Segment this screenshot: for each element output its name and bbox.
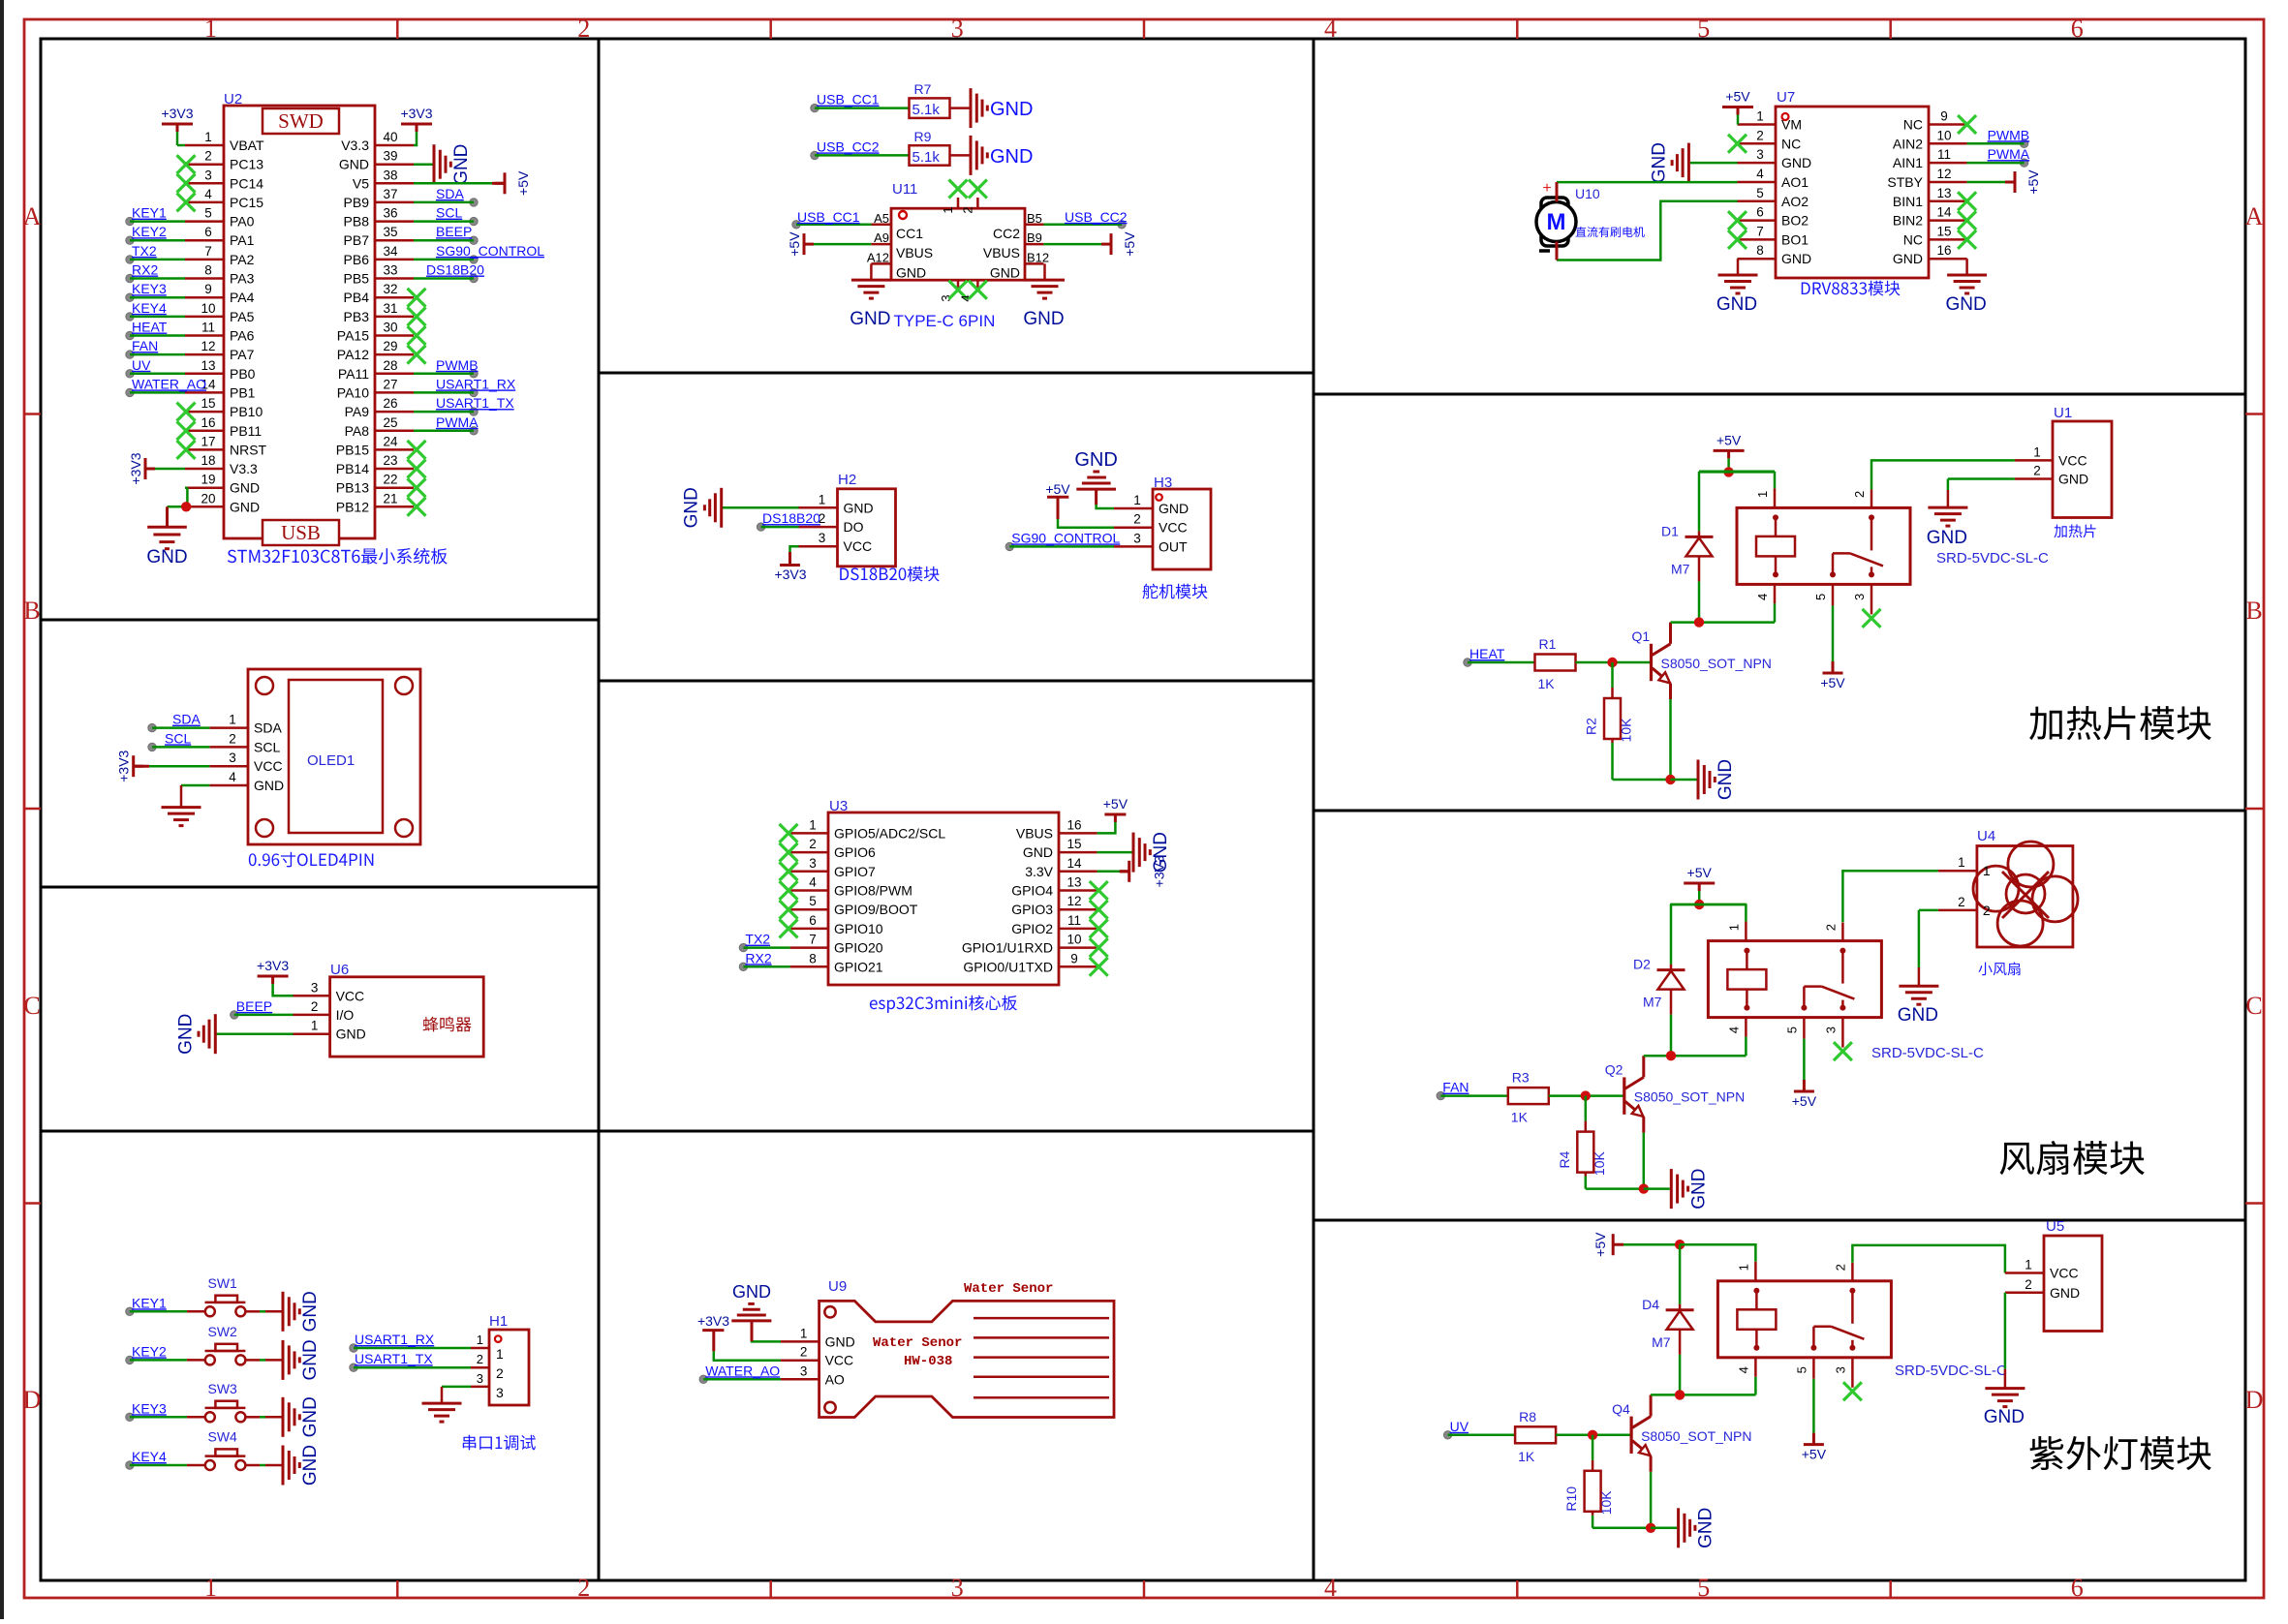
U7 pin 11 AIN1 [1929, 162, 1967, 165]
svg-text:KEY1: KEY1 [132, 205, 167, 221]
U2 pin4 no-connect X [177, 193, 196, 211]
U2 pin 39 GND [375, 163, 414, 166]
svg-text:+3V3: +3V3 [697, 1313, 729, 1329]
U7 pin12 +5V power [1967, 181, 2005, 184]
H2 +3V3 power [790, 546, 799, 552]
U2 net label KEY4 [126, 313, 134, 321]
U7 net label PWMB [2020, 139, 2027, 147]
U3 pin4 no-connect X [780, 881, 798, 900]
diode D2 M7 flyback [1670, 904, 1673, 965]
H1 pin 1 [471, 1347, 489, 1350]
svg-text:2: 2 [1852, 491, 1867, 498]
resistor R1 1K [1535, 655, 1576, 671]
OLED corner hole bottom-left [256, 819, 273, 837]
U2 net label FAN [126, 351, 134, 358]
emitter ground [1697, 760, 1700, 800]
+5V power (B9) [1043, 243, 1101, 246]
relay pin4 stub [1745, 1018, 1747, 1037]
relay pin2 stub [1871, 489, 1873, 507]
SW3 ground [282, 1397, 285, 1437]
svg-text:STBY: STBY [1887, 174, 1923, 190]
svg-text:A: A [2245, 202, 2264, 230]
svg-text:GND: GND [1927, 528, 1967, 548]
svg-text:GND: GND [1898, 1005, 1938, 1026]
+3V3 power (buzzer) [273, 992, 294, 996]
U2 pin 35 PB7 [375, 239, 414, 242]
svg-text:+3V3: +3V3 [161, 106, 193, 121]
U7 pin 2 NC [1738, 142, 1777, 145]
svg-text:R8: R8 [1519, 1409, 1536, 1425]
svg-text:18: 18 [201, 453, 215, 468]
OLED ground [181, 784, 209, 787]
svg-text:1: 1 [819, 492, 826, 506]
U4 GND wire [1919, 909, 1938, 912]
svg-text:PWMB: PWMB [1988, 127, 2030, 142]
U2 pin 17 NRST [185, 448, 224, 451]
U2 pin 3 PC14 [185, 182, 224, 185]
H2 pin 1 GND [799, 506, 838, 509]
svg-text:PA0: PA0 [230, 214, 255, 230]
svg-text:8: 8 [204, 263, 212, 278]
U3 pin6 no-connect X [780, 919, 798, 937]
svg-text:R1: R1 [1539, 636, 1557, 652]
svg-text:USB_CC1: USB_CC1 [797, 209, 860, 225]
svg-text:1: 1 [229, 713, 236, 727]
svg-text:R3: R3 [1512, 1070, 1530, 1086]
svg-text:2: 2 [809, 837, 817, 851]
U3 pin 7 GPIO20 [790, 946, 828, 949]
svg-text:2: 2 [1958, 895, 1965, 909]
svg-text:GND: GND [850, 309, 890, 329]
R4 wires [1585, 1096, 1588, 1121]
svg-text:KEY1: KEY1 [132, 1295, 167, 1310]
svg-text:15: 15 [201, 396, 215, 411]
svg-text:DO: DO [844, 519, 864, 535]
U3 pin13 no-connect X [1090, 881, 1108, 900]
svg-text:PC15: PC15 [230, 195, 263, 210]
+5V junction [1723, 467, 1733, 476]
R7 ground [970, 88, 973, 128]
svg-text:2: 2 [204, 149, 212, 164]
svg-text:4: 4 [204, 187, 212, 201]
U11 pin A5 CC1 [871, 224, 891, 227]
svg-text:4: 4 [809, 875, 817, 890]
svg-text:33: 33 [383, 263, 397, 278]
svg-text:D: D [2245, 1386, 2264, 1414]
svg-text:+3V3: +3V3 [116, 750, 132, 781]
svg-text:S8050_SOT_NPN: S8050_SOT_NPN [1641, 1428, 1751, 1444]
svg-text:GND: GND [1945, 294, 1986, 315]
svg-text:1: 1 [800, 1326, 808, 1340]
+5V rail wire (fan) [1670, 904, 1747, 906]
svg-text:CC1: CC1 [896, 226, 923, 241]
H2 pin1 ground wire [723, 506, 799, 509]
svg-text:1: 1 [1133, 493, 1141, 507]
svg-text:SCL: SCL [165, 730, 191, 746]
svg-text:VBUS: VBUS [1016, 825, 1053, 841]
svg-text:VCC: VCC [844, 538, 873, 554]
svg-text:24: 24 [383, 434, 398, 448]
+5V rail wire [1699, 471, 1775, 474]
svg-text:VCC: VCC [2058, 452, 2087, 468]
svg-text:GND: GND [1893, 251, 1923, 266]
U2 SWD banner [263, 108, 339, 134]
U2 pin23 no-connect X [408, 460, 426, 478]
U2 net label KEY2 [126, 236, 134, 244]
svg-text:2: 2 [2025, 1277, 2032, 1292]
svg-text:GND: GND [339, 157, 369, 172]
U7 pin9 no-connect X [1958, 115, 1976, 134]
svg-text:R4: R4 [1557, 1150, 1572, 1168]
svg-text:1: 1 [311, 1019, 319, 1033]
svg-text:7: 7 [204, 244, 212, 259]
U2 pin 13 PB0 [185, 373, 224, 376]
svg-text:GND: GND [300, 1445, 321, 1486]
svg-text:15: 15 [1067, 837, 1081, 851]
relay pin1 stub [1774, 472, 1777, 489]
U2 net label USART1_TX [470, 408, 478, 415]
svg-text:5: 5 [1697, 1574, 1710, 1602]
relay pin2 stub [1851, 1263, 1854, 1281]
svg-text:PB5: PB5 [344, 271, 370, 287]
H2 pin 2 DO [799, 526, 838, 529]
svg-text:U1: U1 [2054, 405, 2072, 421]
svg-text:23: 23 [383, 453, 397, 468]
svg-text:B9: B9 [1027, 230, 1042, 245]
U7 pin 7 BO1 [1738, 238, 1777, 241]
svg-text:M7: M7 [1652, 1334, 1671, 1350]
svg-text:10: 10 [201, 301, 215, 316]
U2 pin18 +3V3 power (left) [155, 468, 185, 471]
U11 pin2 (top) [976, 198, 979, 208]
U2 net label SCL [470, 217, 478, 225]
svg-text:R9: R9 [914, 129, 932, 144]
svg-text:PB3: PB3 [344, 309, 370, 324]
svg-text:3: 3 [951, 15, 964, 43]
svg-text:Q4: Q4 [1612, 1401, 1630, 1417]
Q1 emitter wire [1669, 684, 1672, 699]
svg-text:GND: GND [230, 480, 260, 496]
U1 pin1 VCC [2015, 459, 2053, 462]
svg-text:3: 3 [477, 1371, 483, 1386]
svg-text:GND: GND [336, 1026, 366, 1042]
+3V3 power (OLED) [149, 765, 209, 768]
svg-text:10K: 10K [1592, 1150, 1607, 1176]
svg-text:M7: M7 [1643, 995, 1662, 1010]
U2 pin 2 PC13 [185, 163, 224, 166]
U2 pin21 no-connect X [408, 498, 426, 516]
svg-text:GPIO3: GPIO3 [1011, 902, 1053, 917]
svg-text:14: 14 [1936, 205, 1952, 220]
svg-text:5: 5 [1794, 1366, 1809, 1373]
SW2 ground wire [245, 1359, 260, 1362]
svg-text:3: 3 [229, 751, 236, 765]
svg-text:HEAT: HEAT [132, 320, 168, 335]
svg-text:6: 6 [204, 225, 212, 239]
U2 pin24 no-connect X [408, 441, 426, 459]
svg-text:A9: A9 [874, 230, 889, 245]
svg-text:PB14: PB14 [336, 461, 369, 476]
U2 pin30 no-connect X [408, 326, 426, 345]
svg-text:KEY2: KEY2 [132, 1343, 167, 1359]
svg-text:PC13: PC13 [230, 157, 263, 172]
svg-text:UV: UV [132, 357, 151, 373]
svg-text:B: B [23, 597, 40, 625]
U1 ground [1946, 506, 1949, 509]
svg-text:2: 2 [477, 1352, 483, 1366]
svg-text:2: 2 [1823, 924, 1838, 931]
relay +5V top wire [1671, 904, 1746, 906]
svg-text:USART1_TX: USART1_TX [436, 395, 514, 411]
svg-text:5: 5 [1697, 15, 1710, 43]
net label KEY2 [126, 1356, 134, 1364]
svg-text:U5: U5 [2046, 1218, 2064, 1235]
svg-text:9: 9 [204, 282, 212, 296]
svg-text:+5V: +5V [1802, 1447, 1827, 1462]
svg-text:VCC: VCC [2050, 1266, 2079, 1281]
svg-text:27: 27 [383, 377, 397, 391]
U2 pin 18 V3.3 [185, 468, 224, 471]
svg-text:GND: GND [1716, 759, 1736, 800]
H1 pin3 ground wire [442, 1386, 471, 1389]
svg-text:A: A [23, 202, 42, 230]
svg-text:2: 2 [2033, 464, 2041, 478]
U5 pin1 VCC [2005, 1272, 2044, 1274]
relay pin4 stub [1754, 1358, 1757, 1377]
svg-text:GND: GND [1688, 1168, 1709, 1209]
U2 pin40 +3V3 power [414, 138, 417, 145]
svg-text:BO1: BO1 [1781, 231, 1809, 247]
U2 pin 30 PA15 [375, 334, 414, 337]
U9 +3V3 power [714, 1351, 781, 1360]
svg-text:PB7: PB7 [344, 232, 370, 248]
svg-text:3: 3 [819, 531, 826, 545]
svg-text:PA1: PA1 [230, 232, 255, 248]
heat module +5V power [1727, 450, 1730, 458]
svg-text:TX2: TX2 [745, 932, 770, 947]
U3 pin3 no-connect X [780, 862, 798, 880]
svg-text:36: 36 [383, 206, 397, 221]
+5V power (A9) [814, 243, 871, 246]
U2 subtitle [228, 548, 448, 565]
svg-text:10K: 10K [1619, 718, 1634, 743]
net label BEEP [231, 1011, 238, 1019]
U2 pin 12 PA7 [185, 353, 224, 356]
U2 net label WATER_AO [126, 388, 134, 396]
U2 pin 38 V5 [375, 182, 414, 185]
Q4 collector wire [1650, 1394, 1653, 1416]
svg-text:28: 28 [383, 358, 397, 373]
+5V junction (fan) [1694, 900, 1704, 909]
svg-text:1: 1 [1983, 863, 1991, 878]
svg-text:34: 34 [383, 244, 398, 259]
svg-text:KEY3: KEY3 [132, 281, 167, 296]
U6 ground wire [215, 1032, 293, 1035]
svg-text:PA9: PA9 [345, 404, 370, 419]
relay K SRD-5VDC-SL-C [1717, 1281, 1891, 1358]
svg-text:+3V3: +3V3 [257, 958, 289, 973]
U2 net label SG90_CONTROL [470, 256, 478, 263]
U2 pin 32 PB4 [375, 296, 414, 299]
svg-text:3: 3 [1852, 594, 1867, 600]
+5V junction (uv) [1675, 1240, 1685, 1249]
svg-text:6: 6 [2071, 15, 2084, 43]
U3 pin 3 GPIO7 [790, 871, 828, 873]
svg-text:PA8: PA8 [345, 423, 370, 439]
svg-text:UV: UV [1450, 1419, 1469, 1434]
svg-text:1: 1 [1958, 855, 1965, 870]
OLED corner hole bottom-right [395, 819, 413, 837]
U7 pin 12 STBY [1929, 181, 1967, 184]
svg-text:BIN1: BIN1 [1893, 194, 1923, 209]
U5 GND wire [2004, 1293, 2007, 1369]
svg-text:OLED1: OLED1 [307, 752, 355, 769]
svg-text:1: 1 [1726, 924, 1741, 931]
U2 pin 28 PA11 [375, 373, 414, 376]
svg-text:AIN2: AIN2 [1893, 136, 1923, 151]
U7 pin 10 AIN2 [1929, 142, 1967, 145]
svg-text:PB0: PB0 [230, 366, 256, 382]
svg-text:GPIO6: GPIO6 [834, 844, 876, 860]
svg-text:GND: GND [896, 264, 926, 280]
U7 pin2 no-connect X [1728, 135, 1747, 153]
U2 pin 33 PB5 [375, 277, 414, 280]
relay +5V top wire [1699, 471, 1775, 474]
U2 pin 29 PA12 [375, 353, 414, 356]
relay pin3 stub + no-connect [1851, 1358, 1854, 1388]
R9 ground [970, 136, 973, 175]
svg-text:22: 22 [383, 473, 397, 487]
U7 pin 9 NC [1929, 123, 1967, 126]
net label SG90_CONTROL (H3) [1005, 542, 1013, 550]
svg-text:WATER_AO: WATER_AO [132, 376, 206, 391]
svg-text:RX2: RX2 [745, 950, 771, 965]
U2 pin 31 PB3 [375, 316, 414, 319]
svg-text:PA4: PA4 [230, 290, 255, 305]
U2 pin2 no-connect X [177, 155, 196, 173]
svg-text:2: 2 [496, 1365, 504, 1381]
U5 ground [2003, 1387, 2006, 1390]
svg-text:6: 6 [809, 913, 817, 928]
U2 pin 20 GND [185, 506, 224, 508]
U2 net label BEEP [470, 236, 478, 244]
SW2 ground [282, 1340, 285, 1380]
net label USB_CC1 (R7) [811, 104, 819, 111]
R7 to GND wire [950, 107, 972, 109]
U2 net label KEY3 [126, 293, 134, 301]
svg-text:GND: GND [300, 1339, 321, 1380]
svg-text:GND: GND [451, 144, 472, 185]
H2 ground [720, 488, 723, 528]
svg-text:SW1: SW1 [208, 1275, 238, 1291]
svg-text:15: 15 [1936, 224, 1951, 238]
svg-text:VM: VM [1781, 117, 1802, 133]
U2 pin 23 PB14 [375, 468, 414, 471]
svg-text:1: 1 [2025, 1258, 2032, 1272]
svg-text:HEAT: HEAT [1469, 646, 1505, 661]
svg-text:D1: D1 [1661, 523, 1679, 538]
svg-text:GND: GND [254, 778, 284, 793]
U2 net label USART1_RX [470, 388, 478, 396]
svg-text:A5: A5 [874, 211, 889, 226]
U2 pin31 no-connect X [408, 307, 426, 325]
svg-text:SRD-5VDC-SL-C: SRD-5VDC-SL-C [1895, 1363, 2007, 1379]
emitter ground [1670, 1169, 1673, 1209]
svg-text:1: 1 [204, 15, 217, 43]
relay K SRD-5VDC-SL-C [1708, 941, 1881, 1018]
net label UV [1443, 1431, 1451, 1439]
svg-text:1: 1 [941, 206, 955, 213]
svg-text:GPIO4: GPIO4 [1011, 883, 1053, 899]
U7 pin16 ground [1965, 259, 1968, 275]
U11 pin4 (bottom) [976, 280, 979, 290]
svg-text:2: 2 [1133, 512, 1141, 527]
U2 pin 10 PA5 [185, 316, 224, 319]
svg-text:U9: U9 [828, 1278, 847, 1295]
svg-text:1K: 1K [1511, 1110, 1529, 1125]
svg-text:FAN: FAN [1442, 1080, 1469, 1095]
svg-text:12: 12 [201, 339, 215, 353]
svg-text:4: 4 [1324, 1574, 1337, 1602]
U11 B12 ground [1043, 263, 1046, 280]
svg-text:BO2: BO2 [1781, 213, 1809, 229]
relay pin2 wire to U5 (uv) [1852, 1245, 2004, 1273]
relay pin4 stub [1774, 584, 1777, 603]
svg-text:+5V: +5V [787, 231, 802, 257]
svg-text:+5V: +5V [1122, 231, 1137, 257]
uv module +5V power (left) [1612, 1234, 1615, 1255]
svg-text:PA5: PA5 [230, 309, 255, 324]
svg-text:25: 25 [383, 415, 397, 430]
svg-text:21: 21 [383, 491, 397, 506]
svg-text:+5V: +5V [1792, 1093, 1817, 1109]
U2 pin1 +3V3 power [177, 144, 185, 147]
svg-text:USB_CC1: USB_CC1 [817, 92, 880, 107]
svg-text:PA10: PA10 [337, 384, 369, 400]
svg-text:16: 16 [201, 415, 215, 430]
U7 pin 8 GND [1738, 258, 1777, 260]
relay K SRD-5VDC-SL-C [1737, 507, 1910, 584]
frame row ticks [24, 413, 41, 415]
Q2 emitter wire [1642, 1117, 1645, 1132]
svg-text:4: 4 [1736, 1366, 1750, 1373]
U11 pin3 (bottom) [957, 280, 960, 290]
svg-text:U7: U7 [1777, 89, 1795, 106]
svg-text:PA7: PA7 [230, 347, 255, 362]
U4 pin1 [1938, 870, 1977, 873]
svg-text:GND: GND [2050, 1285, 2080, 1301]
U3 pin2 no-connect X [780, 843, 798, 862]
section divider lines [598, 39, 601, 1580]
svg-text:V5: V5 [353, 175, 369, 191]
left screenshot edge artifact [0, 0, 4, 1619]
svg-text:R10: R10 [1563, 1486, 1579, 1512]
U2 pin 21 PB12 [375, 506, 414, 508]
net label KEY3 [126, 1413, 134, 1421]
U2 net label KEY1 [126, 217, 134, 225]
U11 pin B9 VBUS [1025, 243, 1043, 246]
U3 pin12 no-connect X [1090, 901, 1108, 919]
svg-text:2: 2 [577, 15, 590, 43]
svg-text:KEY2: KEY2 [132, 224, 167, 239]
diode D1 M7 flyback [1698, 472, 1701, 532]
svg-text:3: 3 [1823, 1026, 1838, 1033]
U11 pin A9 VBUS [871, 243, 891, 246]
H3 pin 3 OUT [1114, 545, 1153, 548]
svg-text:GPIO2: GPIO2 [1011, 921, 1053, 936]
svg-text:PA6: PA6 [230, 328, 255, 344]
svg-text:GND: GND [682, 487, 702, 528]
